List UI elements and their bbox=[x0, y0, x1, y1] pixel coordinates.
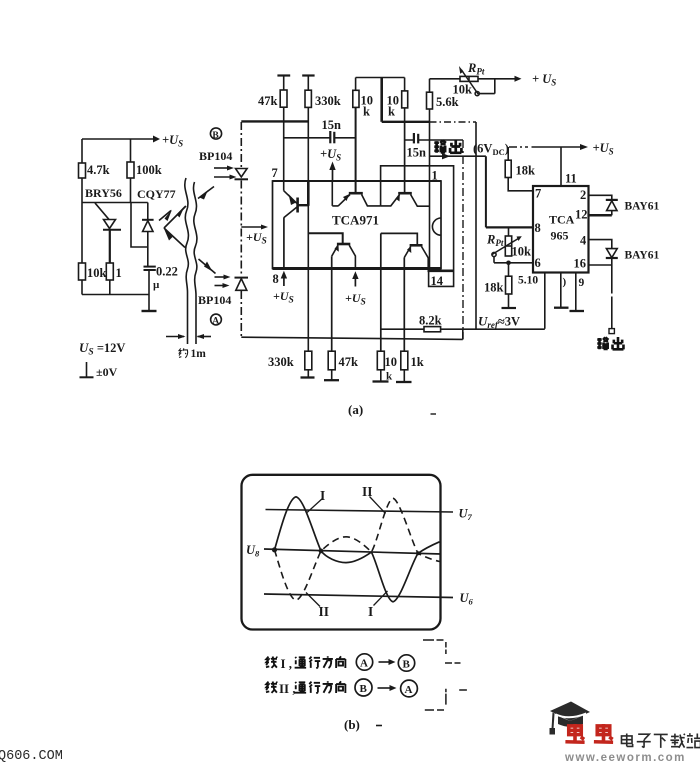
wavy optical gap line 1 bbox=[185, 178, 189, 344]
node pin11 wire bbox=[560, 147, 562, 186]
diode BAY61 lower bbox=[606, 249, 618, 258]
wire output to TCA965 pin8 with arrow bbox=[430, 153, 534, 227]
node shuchu output label 2 bbox=[597, 337, 623, 349]
node circle A bottom bbox=[211, 314, 222, 327]
wire TCA971 bottom rail thick bbox=[273, 267, 442, 270]
node U7 level line bbox=[266, 510, 454, 513]
transistor T4 bbox=[308, 233, 355, 268]
wire +Us supply top-left bbox=[82, 136, 160, 143]
svg-text:10: 10 bbox=[385, 355, 398, 369]
node curve I bottom label with leader bbox=[368, 591, 388, 619]
svg-text:k: k bbox=[386, 371, 393, 383]
arrow legend 2 bbox=[378, 685, 397, 691]
node curve I top label with leader bbox=[307, 488, 325, 513]
waveform curve I solid bbox=[275, 497, 440, 602]
wire 5.6k lead down to pin14 bbox=[429, 109, 431, 271]
light ray arrow small upper bbox=[159, 210, 172, 222]
transistor T3 bbox=[381, 122, 430, 206]
svg-text:7: 7 bbox=[272, 166, 278, 180]
wire T2 T3 collector route to pin14 bbox=[381, 166, 454, 287]
node pin 5 stub bbox=[544, 273, 546, 329]
wire thick drop x381.7 bbox=[380, 78, 383, 122]
svg-text:12: 12 bbox=[575, 208, 588, 222]
arrow +Us into rail mid bbox=[329, 162, 335, 182]
resistor R 47k top bbox=[258, 90, 287, 108]
transistor T1 input bbox=[284, 191, 309, 269]
node crossing dots bbox=[272, 547, 420, 555]
resistor R 10k left bbox=[79, 263, 107, 280]
wire 10k2 bottom lead bbox=[404, 108, 406, 122]
svg-text:B: B bbox=[212, 131, 219, 141]
svg-text:1m: 1m bbox=[191, 348, 207, 360]
arrow into BP104 bottom b bbox=[215, 283, 230, 288]
photodiode BP104 top bbox=[235, 169, 249, 180]
arrow into BP104 bottom a bbox=[215, 275, 231, 280]
svg-text:k: k bbox=[388, 105, 395, 119]
node pin labels TCA965 left bbox=[535, 187, 542, 271]
wire pin4 to BAY61b bbox=[589, 240, 612, 249]
svg-text:8: 8 bbox=[273, 272, 279, 286]
wire TCA971 top rail bbox=[273, 180, 442, 182]
wire pin16 bbox=[589, 264, 612, 266]
svg-text:11: 11 bbox=[565, 172, 577, 186]
op-amp IC TCA971 box bbox=[273, 181, 442, 269]
svg-text:µ: µ bbox=[153, 279, 160, 291]
svg-text:B: B bbox=[403, 659, 411, 671]
svg-text:A: A bbox=[360, 658, 368, 670]
IC notch semicircle bbox=[432, 218, 441, 235]
svg-text:BP104: BP104 bbox=[198, 293, 231, 307]
svg-text:4: 4 bbox=[580, 234, 587, 248]
resistor R 100k bbox=[127, 139, 162, 203]
arrow +Us under pin8 bbox=[281, 271, 287, 286]
logo dianzi xiazaizhan black characters bbox=[621, 733, 700, 748]
svg-text:15n: 15n bbox=[322, 118, 342, 132]
wire top bridge 10k pair bbox=[356, 78, 405, 91]
svg-text:BAY61: BAY61 bbox=[625, 201, 660, 213]
node small dash after b bbox=[376, 725, 382, 727]
node about-1m label bbox=[179, 348, 206, 360]
wire y122 dash-dot to x476 bbox=[430, 121, 477, 123]
svg-text:(b): (b) bbox=[344, 717, 360, 732]
node pin labels TCA965 right bbox=[574, 188, 588, 271]
light ray upper-right bbox=[198, 187, 214, 200]
svg-text:(a): (a) bbox=[348, 402, 363, 417]
svg-text:Q606.COM: Q606.COM bbox=[0, 749, 63, 762]
resistor R 18k upper bbox=[505, 147, 535, 191]
logo chongchong red characters bbox=[565, 724, 613, 742]
svg-text:I: I bbox=[368, 604, 373, 619]
svg-text:8: 8 bbox=[535, 221, 541, 235]
wire +Us tap on bus bbox=[241, 225, 268, 230]
svg-text:A: A bbox=[212, 317, 219, 327]
svg-text:US =12V: US =12V bbox=[79, 340, 125, 358]
resistor R 10k bottom with ground bbox=[373, 233, 398, 382]
wire bus to 47k 330k horizontal bbox=[241, 120, 308, 122]
arrow +Us under T4 bbox=[352, 271, 358, 286]
wire x476 vertical bbox=[475, 122, 477, 329]
light ray lower-left bbox=[164, 228, 186, 248]
node pin 9 stub with ground bbox=[570, 273, 585, 312]
capacitor C 15n first bbox=[284, 118, 356, 143]
wire left vertical rail bbox=[81, 139, 83, 295]
wire bottom rail left block bbox=[82, 294, 149, 296]
svg-text:9: 9 bbox=[579, 277, 585, 289]
node legend line I text bbox=[266, 657, 277, 668]
node TCA 965 label bbox=[549, 213, 575, 243]
ground symbol 0V bbox=[80, 362, 118, 379]
node legend circle A1 bbox=[356, 654, 372, 670]
svg-text:A: A bbox=[405, 684, 413, 696]
svg-text:330k: 330k bbox=[268, 355, 294, 369]
resistor R 5.6k bbox=[427, 79, 459, 109]
svg-text:5.10: 5.10 bbox=[518, 275, 538, 287]
node curve II bottom label with leader bbox=[306, 593, 329, 620]
svg-text:k: k bbox=[363, 105, 370, 119]
svg-text:BRY56: BRY56 bbox=[85, 186, 122, 200]
wire dashdot 6VDC to +Us bbox=[509, 144, 588, 150]
svg-text:0.22: 0.22 bbox=[156, 265, 178, 279]
wavy optical gap line 2 bbox=[193, 182, 196, 344]
wire output terminal lower bbox=[609, 258, 614, 334]
resistor R 1 bbox=[106, 263, 121, 295]
resistor R 10k second bbox=[387, 91, 408, 119]
node legend circle A2 bbox=[401, 680, 418, 697]
logo graduation cap bbox=[550, 702, 591, 735]
photodiode BP104 bottom bbox=[235, 278, 249, 291]
wire photodiode bus dash-dot bbox=[240, 122, 242, 337]
svg-text:18k: 18k bbox=[484, 281, 504, 295]
svg-text:www.eeworm.com: www.eeworm.com bbox=[564, 752, 686, 762]
supply T 47k top bbox=[277, 76, 290, 91]
diode BAY61 upper bbox=[606, 200, 618, 215]
resistor R 4.7k bbox=[79, 163, 110, 178]
wire 47k lead to pin7 bbox=[283, 107, 285, 191]
svg-text:5.6k: 5.6k bbox=[436, 95, 459, 109]
svg-text:10k: 10k bbox=[512, 245, 532, 259]
svg-text:2: 2 bbox=[580, 188, 586, 202]
svg-text:I: I bbox=[320, 488, 325, 503]
dimension arrow 1m right bbox=[197, 334, 212, 339]
dashed bracket right of legend bbox=[423, 640, 467, 710]
waveform curve II dashed bbox=[275, 498, 440, 600]
node legend line II text bbox=[266, 682, 277, 693]
resistor R 1k bottom with ground bbox=[396, 258, 424, 383]
arrow into BP104 top b bbox=[214, 175, 237, 180]
svg-text:100k: 100k bbox=[136, 163, 162, 177]
comparator IC TCA965 box bbox=[533, 186, 589, 273]
node shuchu output label 1 bbox=[434, 140, 461, 153]
transistor T2 bbox=[332, 107, 380, 205]
svg-text:BP104: BP104 bbox=[199, 149, 232, 163]
wire horizontal node A1 bbox=[82, 202, 148, 204]
svg-text:16: 16 bbox=[574, 257, 587, 271]
potentiometer RPt top bbox=[430, 66, 522, 96]
node pin 10 stub with ground bbox=[554, 273, 569, 308]
ground under 18k lower bbox=[502, 307, 517, 309]
svg-text:47k: 47k bbox=[258, 94, 278, 108]
light ray upper-left bbox=[164, 206, 186, 229]
panel rounded box part b bbox=[242, 475, 441, 630]
svg-text:II: II bbox=[319, 604, 330, 619]
wire CQY77 parallel branch bbox=[131, 203, 148, 248]
svg-text:7: 7 bbox=[535, 187, 541, 201]
resistor R 18k lower bbox=[484, 263, 512, 308]
resistor R 330k top bbox=[305, 90, 341, 108]
svg-text:): ) bbox=[563, 276, 567, 288]
node legend circle B1 bbox=[398, 655, 414, 671]
svg-text:330k: 330k bbox=[315, 94, 341, 108]
transistor T5 bbox=[381, 233, 428, 268]
dimension arrow 1m left bbox=[166, 334, 186, 339]
potentiometer RPt lower bbox=[492, 227, 533, 265]
capacitor C 0.22u bbox=[144, 265, 178, 312]
resistor R 330k bottom with ground bbox=[268, 351, 315, 377]
svg-text:I ,: I , bbox=[281, 656, 293, 671]
wire pin12 from BAY61a bbox=[589, 214, 612, 217]
capacitor C 15n second bbox=[405, 133, 463, 160]
svg-text:CQY77: CQY77 bbox=[137, 187, 176, 201]
svg-text:6: 6 bbox=[535, 256, 541, 270]
ground under 0.22u bbox=[142, 310, 157, 312]
wire dash vertical x463 bbox=[462, 140, 464, 339]
wire y122 thick bbox=[382, 121, 430, 123]
supply T 330k top bbox=[302, 76, 314, 91]
svg-text:10k: 10k bbox=[87, 266, 107, 280]
resistor R 47k bottom with ground bbox=[324, 256, 358, 380]
svg-text:965: 965 bbox=[551, 229, 569, 243]
svg-text:15n: 15n bbox=[407, 146, 427, 160]
svg-text:BAY61: BAY61 bbox=[625, 250, 660, 262]
svg-text:Uref≈3V: Uref≈3V bbox=[478, 314, 520, 331]
resistor R 8.2k on Uref wire bbox=[381, 314, 545, 332]
node U6 level line bbox=[264, 594, 453, 598]
svg-text:TCA: TCA bbox=[549, 213, 575, 227]
wire lower return W2 bbox=[241, 329, 462, 339]
LED CQY77 bbox=[142, 203, 154, 267]
arrow legend 1 bbox=[379, 659, 396, 665]
wire pin2 to BAY61a bbox=[589, 195, 612, 199]
node legend circle B2 bbox=[355, 679, 372, 696]
node curve II top label with leader bbox=[362, 484, 386, 514]
svg-text:±0V: ±0V bbox=[96, 365, 118, 379]
arrow into BP104 top a bbox=[214, 166, 234, 171]
wire 330k lead down through IC to 330k bottom bbox=[307, 107, 309, 351]
svg-text:1: 1 bbox=[432, 169, 438, 183]
svg-text:II: II bbox=[362, 484, 373, 499]
svg-text:47k: 47k bbox=[339, 355, 359, 369]
svg-text:TCA971: TCA971 bbox=[332, 213, 379, 228]
wire pin14 bar bbox=[428, 269, 455, 272]
resistor R 10k first bbox=[353, 90, 373, 118]
light ray lower-right bbox=[199, 259, 216, 274]
node circle B top bbox=[210, 128, 221, 141]
svg-text:1: 1 bbox=[116, 266, 122, 280]
svg-text:8.2k: 8.2k bbox=[419, 314, 442, 328]
svg-text:4.7k: 4.7k bbox=[87, 163, 110, 177]
svg-text:II ,: II , bbox=[279, 681, 296, 696]
svg-text:B: B bbox=[360, 683, 368, 695]
svg-text:1k: 1k bbox=[411, 355, 424, 369]
wire 330k lead thick collector part bbox=[307, 181, 310, 206]
svg-text:18k: 18k bbox=[516, 164, 536, 178]
node U8 axis line bbox=[264, 549, 441, 554]
thyristor BRY56 bbox=[95, 203, 121, 263]
